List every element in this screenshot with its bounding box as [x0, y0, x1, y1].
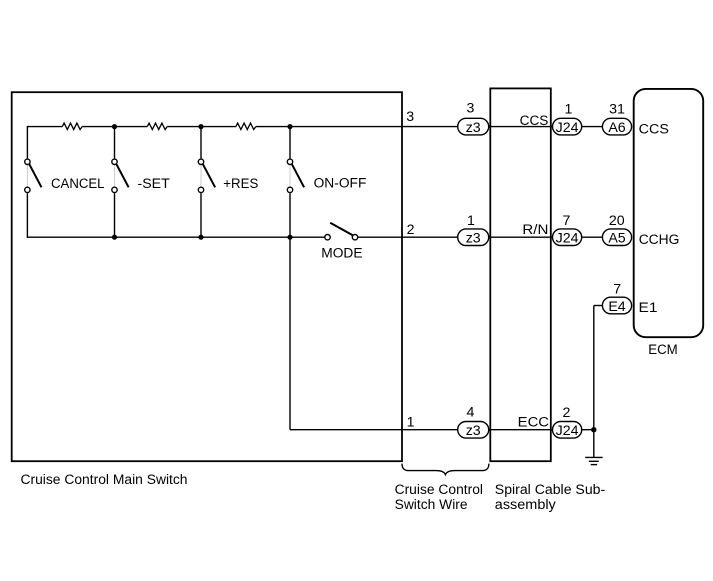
- connector oval J24 row4: [553, 422, 582, 439]
- junction dot top rail at -SET branch: [112, 124, 117, 129]
- svg-text:A6: A6: [608, 120, 625, 136]
- svg-text:Cruise Control Main Switch: Cruise Control Main Switch: [21, 472, 188, 488]
- svg-text:CANCEL: CANCEL: [51, 176, 105, 192]
- svg-text:E1: E1: [639, 300, 658, 316]
- svg-text:z3: z3: [466, 120, 481, 136]
- svg-text:E4: E4: [608, 299, 625, 315]
- svg-text:ECC: ECC: [518, 414, 549, 430]
- svg-text:CCS: CCS: [639, 121, 669, 137]
- svg-text:A5: A5: [608, 231, 625, 247]
- junction dot top rail at +RES branch: [198, 124, 203, 129]
- svg-text:J24: J24: [556, 231, 579, 247]
- svg-text:J24: J24: [556, 120, 579, 136]
- svg-text:20: 20: [609, 213, 625, 229]
- svg-text:J24: J24: [556, 423, 579, 439]
- ground symbol: [585, 456, 602, 458]
- svg-text:7: 7: [613, 281, 621, 297]
- svg-text:assembly: assembly: [495, 497, 557, 513]
- svg-text:1: 1: [467, 213, 475, 229]
- connector oval A6 row1: [602, 118, 631, 135]
- svg-text:2: 2: [563, 405, 571, 421]
- resistor R1: [62, 123, 82, 129]
- resistor R3: [236, 123, 256, 129]
- connector oval z3 row4: [458, 422, 489, 439]
- svg-text:Cruise Control: Cruise Control: [395, 482, 483, 498]
- svg-text:3: 3: [406, 109, 414, 125]
- wire vertical from ON-OFF branch to row4: [289, 237, 291, 430]
- wire row3 to E4: [594, 305, 603, 307]
- connector oval z3 row1: [458, 118, 489, 135]
- spiral cable sub-assembly box: [490, 88, 551, 461]
- ECM box U1: [634, 89, 704, 337]
- junction dot bottom rail at -SET branch: [112, 235, 117, 240]
- svg-text:+RES: +RES: [223, 176, 258, 192]
- svg-text:ECM: ECM: [648, 342, 677, 358]
- junction dot bottom rail at +RES branch: [198, 235, 203, 240]
- switch S2 -SET contact circles and lever: [114, 127, 116, 159]
- svg-text:3: 3: [466, 100, 474, 116]
- wire row4 ECC net: [290, 429, 594, 431]
- svg-text:z3: z3: [466, 231, 481, 247]
- junction dot top rail at ON-OFF branch: [287, 124, 292, 129]
- wire row1 to ECM: [256, 126, 603, 128]
- svg-text:31: 31: [609, 102, 625, 118]
- resistor R2: [147, 123, 167, 129]
- connector oval A5 row2: [602, 229, 631, 246]
- connector oval z3 row2: [458, 229, 489, 246]
- svg-text:Spiral Cable Sub-: Spiral Cable Sub-: [495, 482, 606, 498]
- wire row2 mode to ECM: [358, 236, 603, 238]
- svg-text:z3: z3: [466, 423, 481, 439]
- junction dot ground node: [591, 427, 596, 432]
- connector oval J24 row1: [553, 118, 582, 135]
- svg-text:7: 7: [563, 213, 571, 229]
- brace for cruise control switch wire: [402, 464, 489, 475]
- svg-text:CCS: CCS: [520, 113, 549, 129]
- wire: [167, 126, 236, 128]
- wire row1 CCS net: [27, 126, 62, 128]
- svg-text:MODE: MODE: [321, 246, 362, 262]
- svg-text:1: 1: [565, 102, 573, 118]
- svg-text:4: 4: [467, 404, 475, 420]
- svg-text:ON-OFF: ON-OFF: [314, 175, 367, 191]
- wire row2 bottom rail: [27, 236, 324, 238]
- svg-text:CCHG: CCHG: [639, 232, 680, 248]
- switch S4 ON-OFF contact circles and lever: [289, 127, 291, 159]
- svg-text:Switch Wire: Switch Wire: [395, 497, 468, 513]
- svg-text:-SET: -SET: [138, 176, 171, 192]
- switch S5 MODE contact circles and lever: [325, 235, 330, 240]
- svg-text:R/N: R/N: [522, 222, 548, 238]
- wire vertical ground net: [593, 306, 595, 458]
- connector oval E4 row3: [602, 297, 631, 314]
- cruise control main switch box: [12, 92, 402, 461]
- junction dot bottom rail at ON-OFF branch: [287, 235, 292, 240]
- svg-text:2: 2: [407, 222, 415, 238]
- switch S3 +RES contact circles and lever: [200, 127, 202, 159]
- wire: [82, 126, 147, 128]
- connector oval J24 row2: [553, 229, 582, 246]
- svg-text:1: 1: [407, 414, 415, 430]
- switch S1 CANCEL contact circles and lever: [26, 126, 28, 158]
